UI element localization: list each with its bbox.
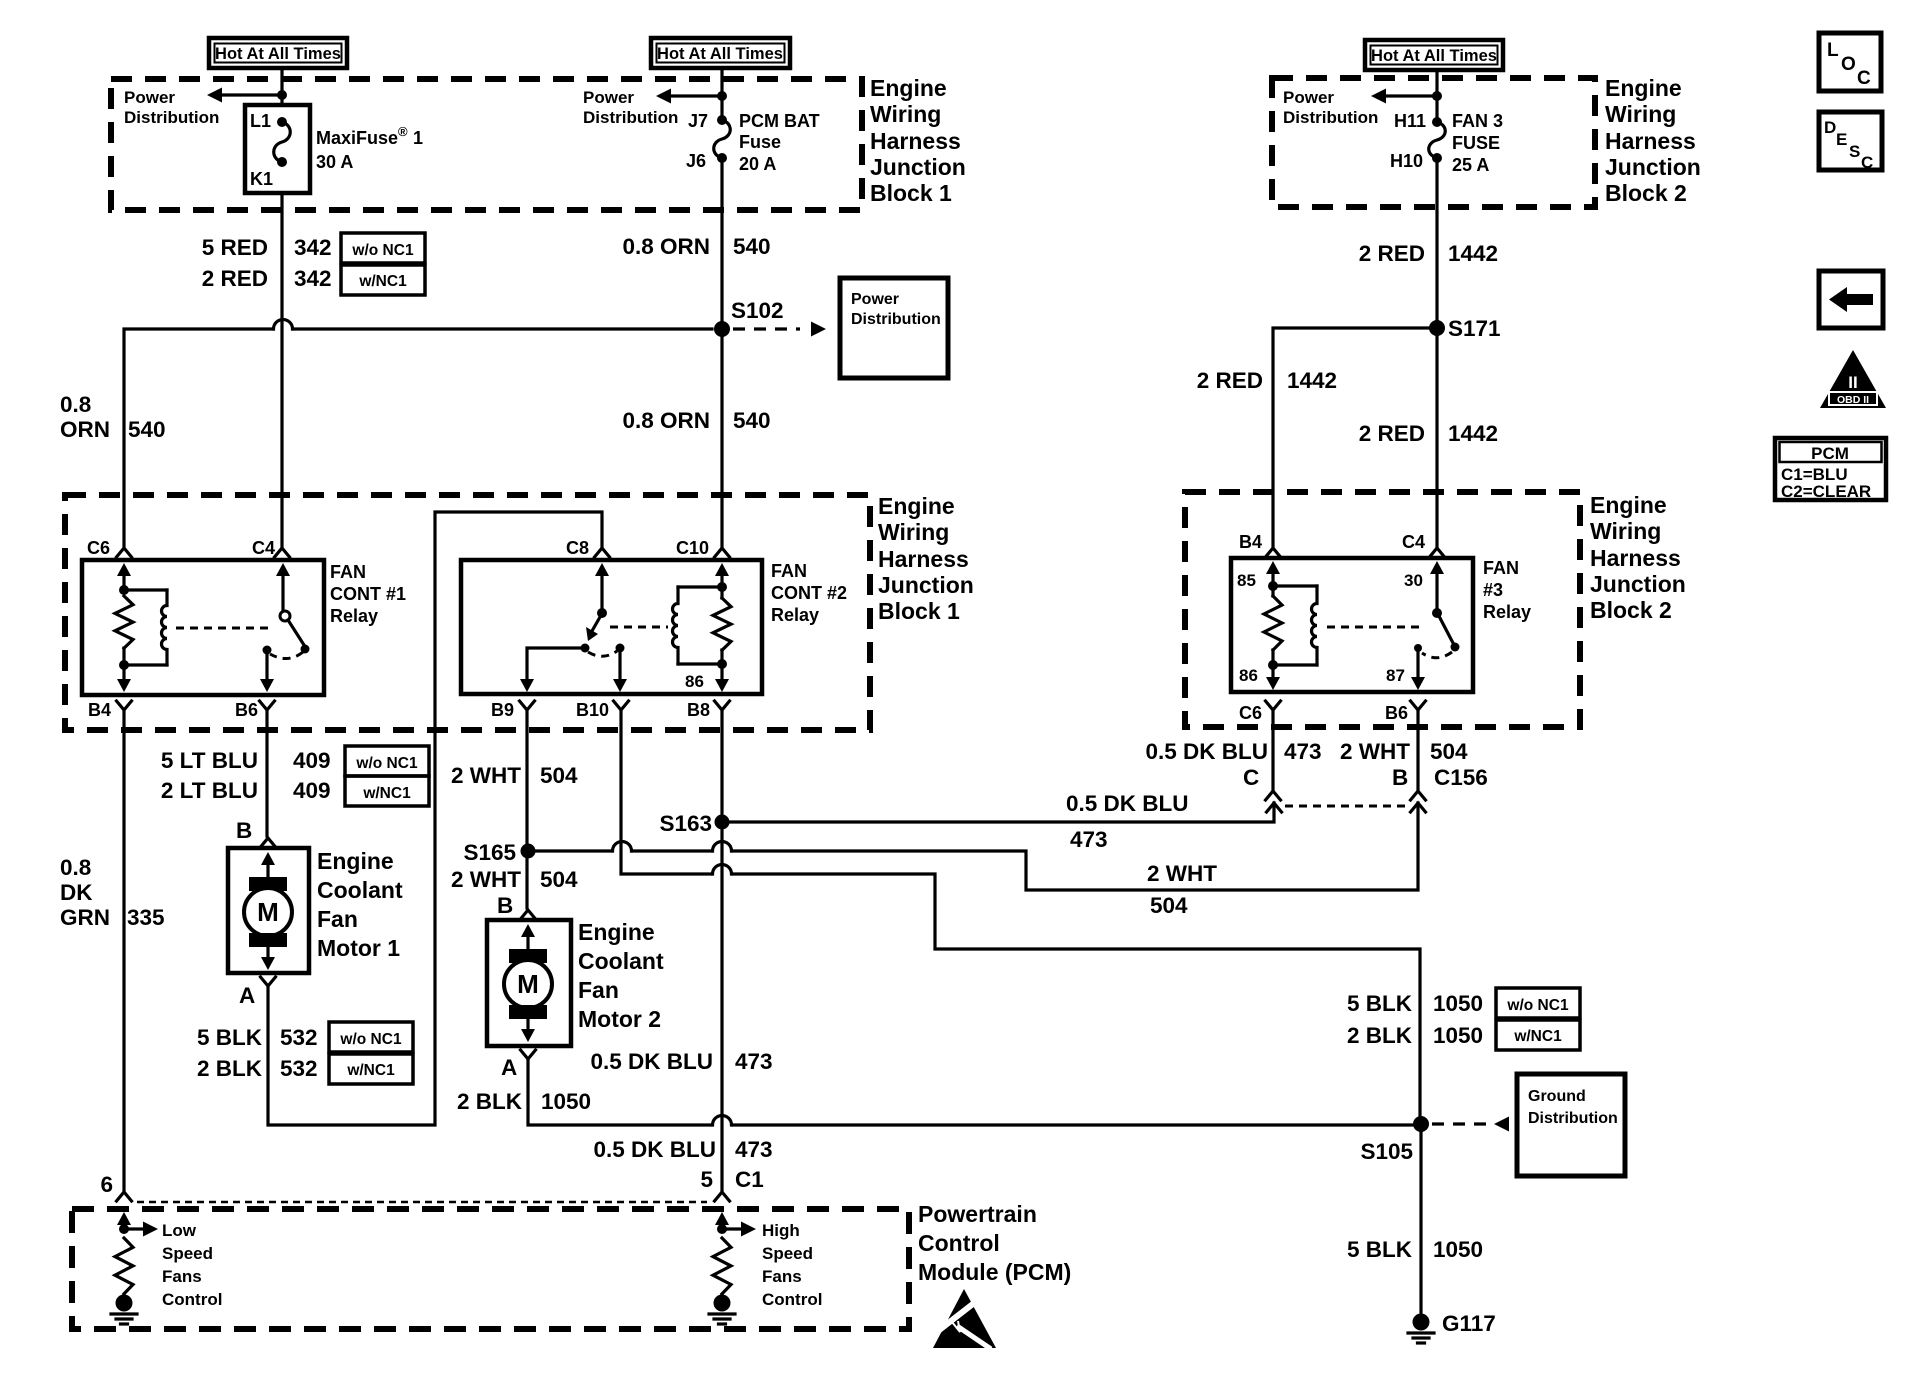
svg-text:B6: B6 [235, 700, 258, 720]
svg-text:2 RED: 2 RED [1359, 421, 1425, 446]
wire label: 2 BLK 532 (w/NC1) [197, 1054, 413, 1084]
svg-text:MaxiFuse: MaxiFuse [316, 128, 398, 148]
value label: FAN 3 FUSE 25 A [1452, 111, 1503, 175]
wire: Hot At All Times down to FAN 3 fuse H11 [1435, 70, 1438, 122]
svg-text:Hot At All Times: Hot At All Times [1371, 47, 1497, 65]
svg-text:2 WHT: 2 WHT [451, 763, 521, 788]
svg-text:2 BLK: 2 BLK [457, 1089, 523, 1114]
wire label: 2 RED 1442 (left branch) [1197, 368, 1337, 393]
svg-text:II: II [1848, 373, 1857, 392]
relay 1 switch: pivot from C4, blade, contact to B6 [260, 563, 310, 692]
svg-text:w/NC1: w/NC1 [362, 785, 411, 802]
svg-text:B8: B8 [687, 700, 710, 720]
svg-text:B9: B9 [491, 700, 514, 720]
PCM high speed fans control driver: arrow, resistor, ground [709, 1212, 756, 1324]
pin A connector fork (motor 2) [521, 1050, 536, 1059]
wire label: 0.8 ORN 540 (lower) [622, 408, 770, 433]
svg-text:C8: C8 [566, 538, 589, 558]
svg-text:0.8 ORN: 0.8 ORN [622, 408, 710, 433]
svg-text:Fan: Fan [578, 977, 619, 1003]
wire: relay 2 B10 down then right to ground wire (joins 5 BLK 1050 drop) [621, 710, 711, 874]
svg-text:C: C [1243, 765, 1259, 790]
wire: relay 1 B4 down to PCM pin 6 (0.8 DK GRN 335) [122, 710, 125, 1191]
svg-text:PCM: PCM [1811, 444, 1849, 463]
svg-text:S171: S171 [1448, 316, 1501, 341]
svg-text:w/NC1: w/NC1 [358, 273, 407, 290]
node S105 [1360, 1116, 1429, 1164]
wire: relay 3 C6 down to connector C156 pin C [1271, 710, 1274, 790]
relay K-FAN CONT #1 (box) [82, 560, 324, 695]
wire: relay 3 B6 down to connector C156 pin B [1416, 710, 1419, 790]
wire label: 2 WHT 504 (below S165) [451, 867, 578, 892]
motor M2: Engine Coolant Fan Motor 2 [487, 920, 571, 1046]
svg-text:86: 86 [685, 672, 704, 691]
svg-text:504: 504 [540, 763, 578, 788]
ESD sensitive device triangle symbol [933, 1289, 996, 1349]
wire label: 0.5 DK BLU 473 (above motor 2 ground run) [590, 1049, 772, 1074]
svg-text:w/NC1: w/NC1 [1513, 1028, 1562, 1045]
relay 2 coil branch: entry from C10, coil + resistor, exit to B8 [673, 563, 732, 692]
svg-text:G117: G117 [1442, 1311, 1496, 1336]
svg-text:Distribution: Distribution [124, 108, 219, 127]
svg-text:Junction: Junction [878, 572, 974, 598]
svg-text:473: 473 [735, 1049, 773, 1074]
svg-text:ORN: ORN [60, 417, 110, 442]
relay K-FAN CONT #2 (box) [461, 560, 762, 694]
svg-text:Engine: Engine [870, 75, 947, 101]
label: Engine Wiring Harness Junction Block 2 (top) [1605, 75, 1701, 206]
svg-text:0.5 DK BLU: 0.5 DK BLU [1066, 791, 1189, 816]
svg-text:Engine: Engine [878, 493, 955, 519]
svg-text:B6: B6 [1385, 703, 1408, 723]
label: Engine Wiring Harness Junction Block 1 (top) [870, 75, 966, 206]
svg-text:342: 342 [294, 266, 332, 291]
wire label: 0.5 DK BLU 473 (relay 3 C6) [1145, 739, 1321, 764]
svg-text:1442: 1442 [1448, 421, 1498, 446]
svg-text:86: 86 [1239, 666, 1258, 685]
svg-text:2 BLK: 2 BLK [197, 1056, 263, 1081]
relay 3 switch: pivot from 30/C4, blade, contact to 87 [1411, 561, 1460, 690]
wire label: 0.8 DK GRN 335 [60, 855, 165, 930]
node S102 [714, 298, 784, 337]
svg-text:473: 473 [735, 1137, 773, 1162]
svg-text:0.8: 0.8 [60, 855, 91, 880]
wire label: 0.5 DK BLU 473 (lower, to PCM pin 5) [593, 1137, 772, 1162]
wire: fuse H10 down through S171 to relay FAN #3 pin C4 [1435, 158, 1438, 547]
pin A connector fork (motor 1) [261, 977, 276, 986]
svg-text:Relay: Relay [771, 605, 819, 625]
svg-text:High: High [762, 1221, 800, 1240]
svg-text:Module (PCM): Module (PCM) [918, 1259, 1071, 1285]
label: FAN #3 Relay [1483, 558, 1531, 622]
svg-text:5 BLK: 5 BLK [1347, 991, 1413, 1016]
svg-text:Coolant: Coolant [578, 948, 664, 974]
sidebar icon: DESC box [1819, 112, 1882, 172]
wire label: 2 RED 342 (w/NC1) [202, 265, 425, 295]
svg-text:5: 5 [700, 1167, 713, 1192]
PCM low speed fans control driver: arrow, resistor, ground [111, 1212, 158, 1324]
fuse: PCM BAT Fuse 20 A (pins J7/J6) [686, 111, 730, 171]
svg-text:5 RED: 5 RED [202, 235, 268, 260]
svg-text:w/o NC1: w/o NC1 [1506, 997, 1569, 1014]
svg-text:DK: DK [60, 880, 93, 905]
svg-text:Distribution: Distribution [1528, 1110, 1618, 1127]
svg-text:Control: Control [162, 1290, 222, 1309]
svg-text:Engine: Engine [1605, 75, 1682, 101]
sidebar icon: OBD II triangle [1820, 350, 1886, 408]
wire: Hot At All Times down to PCM BAT fuse J7 [720, 68, 723, 120]
svg-text:1050: 1050 [541, 1089, 591, 1114]
svg-text:6: 6 [100, 1172, 113, 1197]
module: Powertrain Control Module (PCM) dashed box [72, 1209, 909, 1329]
svg-text:1050: 1050 [1433, 991, 1483, 1016]
svg-text:30 A: 30 A [316, 152, 353, 172]
pin B6 connector fork (relay 3) [1411, 701, 1426, 710]
svg-text:Wiring: Wiring [1605, 101, 1676, 127]
svg-text:540: 540 [733, 234, 771, 259]
relay 1 coil branch: entry arrow, resistor, coil [115, 563, 167, 692]
wire: Hot At All Times down to MaxiFuse L1 [280, 68, 283, 105]
svg-text:2 LT BLU: 2 LT BLU [161, 778, 258, 803]
svg-text:Block 1: Block 1 [870, 180, 952, 206]
wire label: 0.8 ORN 540 (left drop) [60, 392, 166, 442]
wire: S165 right to C156 pin B (2 WHT 504 feed to relay 3 B6) [535, 849, 612, 852]
svg-text:Hot At All Times: Hot At All Times [657, 45, 783, 63]
pin 5 / connector C1 label (PCM) [700, 1167, 763, 1192]
svg-text:C2=CLEAR: C2=CLEAR [1781, 482, 1871, 501]
dashed reference arrow: S105 to Ground Distribution [1432, 1117, 1509, 1132]
svg-text:Wiring: Wiring [870, 101, 941, 127]
wire label: 2 RED 1442 (upper) [1359, 241, 1498, 266]
wire: S105 down to ground G117 (5 BLK 1050) [1419, 1124, 1422, 1314]
svg-text:B4: B4 [1239, 532, 1262, 552]
svg-text:S165: S165 [463, 840, 516, 865]
wire label: 2 BLK 1050 (w/NC1) [1347, 1020, 1580, 1050]
sidebar icon: LOC box [1819, 33, 1881, 91]
svg-text:Junction: Junction [1590, 571, 1686, 597]
label: Power Distribution (JB1) [124, 88, 219, 127]
label: Engine Wiring Harness Junction Block 1 (middle) [878, 493, 974, 624]
junction block: Engine Wiring Harness Junction Block 1 (top, dashed) [111, 79, 862, 210]
fuse: MaxiFuse 1 30 A (pins L1/K1) [245, 105, 310, 193]
svg-text:5 LT BLU: 5 LT BLU [161, 748, 258, 773]
relay 2 switch: pivot from C8, blade arrow, contacts to B9 and B10 [520, 563, 627, 692]
power distribution take-off arrow (PCM BAT) [656, 89, 727, 104]
connector C156 pin C mating forks [1266, 791, 1281, 800]
svg-text:20 A: 20 A [739, 154, 776, 174]
svg-text:Distribution: Distribution [1283, 108, 1378, 127]
svg-text:0.5 DK BLU: 0.5 DK BLU [593, 1137, 716, 1162]
dashed reference arrow: S102 to Power Distribution [733, 322, 826, 337]
svg-text:2 RED: 2 RED [1359, 241, 1425, 266]
svg-text:PCM BAT: PCM BAT [739, 111, 820, 131]
svg-text:Power: Power [583, 88, 634, 107]
svg-text:Fuse: Fuse [739, 132, 781, 152]
svg-text:B10: B10 [576, 700, 609, 720]
svg-text:473: 473 [1070, 827, 1108, 852]
pin B10 connector fork (relay 2) [614, 701, 629, 710]
svg-text:Motor 2: Motor 2 [578, 1006, 661, 1032]
svg-text:FAN 3: FAN 3 [1452, 111, 1503, 131]
wire label: 2 LT BLU 409 (w/NC1) [161, 776, 429, 806]
svg-text:Fans: Fans [762, 1267, 802, 1286]
svg-text:J7: J7 [688, 111, 708, 131]
svg-text:#3: #3 [1483, 580, 1503, 600]
node S171 [1429, 316, 1501, 341]
svg-text:5 BLK: 5 BLK [197, 1025, 263, 1050]
fuse: FAN 3 FUSE 25 A (pins H11/H10) [1390, 111, 1445, 171]
svg-text:409: 409 [293, 778, 331, 803]
label: Engine Coolant Fan Motor 1 [317, 848, 403, 961]
svg-text:Distribution: Distribution [583, 108, 678, 127]
svg-text:87: 87 [1386, 666, 1405, 685]
svg-text:A: A [239, 983, 255, 1008]
relay 1 actuation dashed link [176, 627, 272, 630]
svg-text:D: D [1824, 118, 1836, 137]
svg-text:S: S [1849, 142, 1860, 161]
svg-text:2 WHT: 2 WHT [1147, 861, 1217, 886]
svg-text:2 WHT: 2 WHT [451, 867, 521, 892]
svg-text:B4: B4 [88, 700, 111, 720]
wire: motor 1 pin A down, right, and up to relay FAN CONT #2 pin C8 (BLK 532) [268, 512, 602, 1125]
svg-text:Block 1: Block 1 [878, 598, 960, 624]
svg-text:FUSE: FUSE [1452, 133, 1500, 153]
label: Engine Coolant Fan Motor 2 [578, 919, 664, 1032]
svg-text:GRN: GRN [60, 905, 110, 930]
svg-text:5 BLK: 5 BLK [1347, 1237, 1413, 1262]
svg-text:Junction: Junction [870, 154, 966, 180]
wire label: 5 BLK 532 (w/o NC1) [197, 1022, 413, 1052]
svg-text:540: 540 [733, 408, 771, 433]
pin B9 connector fork (relay 2) [520, 701, 535, 710]
label: Low Speed Fans Control [162, 1221, 222, 1309]
svg-text:C156: C156 [1434, 765, 1488, 790]
label: Power Distribution (FAN 3) [1283, 88, 1378, 127]
relay 2 actuation dashed link [610, 626, 668, 629]
svg-text:Harness: Harness [878, 546, 969, 572]
svg-text:Hot At All Times: Hot At All Times [215, 45, 341, 63]
wire: relay 2 B8 down through S163 to PCM pin 5 (0.5 DK BLU 473) [720, 710, 723, 1191]
wire: relay 2 B9 down through S165 to motor 2 pin B (2 WHT 504) [525, 710, 528, 908]
pin B6 connector fork (relay 1) [260, 701, 275, 710]
wire: S102 left then down to relay FAN CONT #1 pin C6 (0.8 ORN 540) [293, 327, 712, 330]
svg-text:S163: S163 [659, 811, 712, 836]
svg-text:Wiring: Wiring [1590, 518, 1661, 544]
svg-text:Speed: Speed [162, 1244, 213, 1263]
svg-text:K1: K1 [250, 169, 273, 189]
svg-text:CONT #2: CONT #2 [771, 583, 847, 603]
pin B8 connector fork (relay 2) [715, 701, 730, 710]
ground G117 [1408, 1311, 1496, 1343]
svg-text:C10: C10 [676, 538, 709, 558]
svg-text:Block 2: Block 2 [1590, 597, 1672, 623]
svg-text:Harness: Harness [870, 128, 961, 154]
svg-text:Distribution: Distribution [851, 311, 941, 328]
node S165 [463, 840, 535, 865]
svg-text:1: 1 [413, 128, 423, 148]
svg-text:Fans: Fans [162, 1267, 202, 1286]
junction block: Engine Wiring Harness Junction Block 2 (middle, dashed) [1185, 492, 1580, 727]
power distribution take-off arrow (FAN 3) [1371, 89, 1442, 104]
reference box: Power Distribution [840, 278, 948, 378]
svg-text:C: C [1861, 153, 1873, 172]
junction block: Engine Wiring Harness Junction Block 1 (middle, dashed) [65, 495, 870, 730]
svg-text:Low: Low [162, 1221, 197, 1240]
svg-text:532: 532 [280, 1056, 318, 1081]
label: Power Distribution (PCM BAT) [583, 88, 678, 127]
svg-text:L1: L1 [250, 111, 271, 131]
wire: MaxiFuse K1 down to relay FAN CONT #1 pin C4 [280, 193, 283, 547]
svg-text:2 RED: 2 RED [1197, 368, 1263, 393]
svg-text:C: C [1857, 68, 1871, 89]
svg-text:C6: C6 [87, 538, 110, 558]
svg-text:Power: Power [124, 88, 175, 107]
wire: relay 1 B6 down to Engine Coolant Fan Motor 1 pin B (LT BLU 409) [265, 710, 268, 836]
svg-text:O: O [1841, 54, 1856, 75]
wire: S163 right to C156 pin C (0.5 DK BLU 473 feed to relay 3 C6) [722, 803, 1274, 822]
wire label: 2 WHT 504 (relay 3 B6) [1340, 739, 1468, 764]
label: High Speed Fans Control [762, 1221, 822, 1309]
svg-text:FAN: FAN [330, 562, 366, 582]
sidebar legend: PCM connector colours [1775, 438, 1886, 501]
pin B4 connector fork (relay 1) [117, 701, 132, 710]
svg-text:OBD II: OBD II [1837, 394, 1869, 406]
svg-text:2 WHT: 2 WHT [1340, 739, 1410, 764]
label: Hot At All Times (FAN 3 feed) [1365, 40, 1503, 70]
svg-text:Control: Control [918, 1230, 1000, 1256]
svg-text:Fan: Fan [317, 906, 358, 932]
svg-text:L: L [1827, 40, 1839, 61]
wire label: 5 RED 342 (w/o NC1) [202, 233, 425, 263]
pin C6 connector fork (relay 3) [1266, 701, 1281, 710]
wire label: 2 BLK 1050 [457, 1089, 591, 1114]
svg-text:1050: 1050 [1433, 1023, 1483, 1048]
wire label: 5 BLK 1050 (to G117) [1347, 1237, 1483, 1262]
svg-text:0.5 DK BLU: 0.5 DK BLU [590, 1049, 713, 1074]
svg-text:540: 540 [128, 417, 166, 442]
node S163 [659, 811, 729, 836]
label: Hot At All Times (PCM BAT feed) [651, 38, 790, 68]
svg-text:1442: 1442 [1448, 241, 1498, 266]
motor M1: Engine Coolant Fan Motor 1 [228, 848, 309, 973]
wire: S171 left then down to relay FAN #3 pin B4 (2 RED 1442) [1273, 328, 1437, 547]
svg-text:85: 85 [1237, 571, 1256, 590]
svg-text:FAN: FAN [1483, 558, 1519, 578]
connector C156 pin B mating forks [1411, 791, 1426, 800]
svg-text:B: B [236, 818, 252, 843]
svg-text:M: M [517, 969, 539, 999]
svg-text:335: 335 [127, 905, 165, 930]
svg-text:w/NC1: w/NC1 [346, 1062, 395, 1079]
wire label: 2 WHT 504 (B9 upper) [451, 763, 578, 788]
label: Engine Wiring Harness Junction Block 2 (middle) [1590, 492, 1686, 623]
svg-text:Ground: Ground [1528, 1088, 1586, 1105]
label: FAN CONT #2 Relay [771, 561, 847, 625]
svg-text:504: 504 [540, 867, 578, 892]
svg-text:H10: H10 [1390, 151, 1423, 171]
svg-text:Harness: Harness [1590, 545, 1681, 571]
wire: motor 2 pin A down and right to S105 (2 BLK 1050) [528, 1059, 711, 1125]
svg-text:FAN: FAN [771, 561, 807, 581]
svg-text:E: E [1836, 130, 1847, 149]
svg-text:0.8: 0.8 [60, 392, 91, 417]
svg-text:Engine: Engine [317, 848, 394, 874]
label: Powertrain Control Module (PCM) [918, 1201, 1071, 1285]
svg-text:30: 30 [1404, 571, 1423, 590]
svg-text:2 RED: 2 RED [202, 266, 268, 291]
value label: MaxiFuse(R) 1 30 A [316, 124, 423, 172]
relay 3 actuation dashed link [1327, 626, 1424, 629]
svg-text:25 A: 25 A [1452, 155, 1489, 175]
relay 3 coil branch: entry arrow, resistor, coil [1264, 561, 1317, 690]
svg-text:Relay: Relay [330, 606, 378, 626]
wire label: 5 BLK 1050 (w/o NC1) [1347, 988, 1580, 1018]
svg-text:1050: 1050 [1433, 1237, 1483, 1262]
wire label: 0.8 ORN 540 (upper) [622, 234, 770, 259]
svg-text:Wiring: Wiring [878, 519, 949, 545]
svg-text:w/o NC1: w/o NC1 [351, 242, 414, 259]
svg-text:H11: H11 [1394, 111, 1426, 131]
svg-text:A: A [501, 1055, 517, 1080]
svg-text:0.8 ORN: 0.8 ORN [622, 234, 710, 259]
svg-text:w/o NC1: w/o NC1 [355, 755, 418, 772]
svg-text:Coolant: Coolant [317, 877, 403, 903]
svg-text:B: B [1392, 765, 1408, 790]
svg-text:Junction: Junction [1605, 154, 1701, 180]
svg-text:w/o NC1: w/o NC1 [339, 1031, 402, 1048]
svg-text:Control: Control [762, 1290, 822, 1309]
svg-text:504: 504 [1430, 739, 1468, 764]
svg-text:C6: C6 [1239, 703, 1262, 723]
svg-text:C4: C4 [1402, 532, 1425, 552]
svg-text:Relay: Relay [1483, 602, 1531, 622]
svg-text:1442: 1442 [1287, 368, 1337, 393]
svg-text:504: 504 [1150, 893, 1188, 918]
svg-text:532: 532 [280, 1025, 318, 1050]
svg-text:Block 2: Block 2 [1605, 180, 1687, 206]
svg-text:C4: C4 [252, 538, 275, 558]
svg-text:B: B [497, 893, 513, 918]
svg-text:J6: J6 [686, 151, 706, 171]
svg-text:Power: Power [851, 291, 899, 308]
power distribution take-off arrow (JB1 left) [207, 88, 287, 103]
svg-text:Power: Power [1283, 88, 1334, 107]
svg-text:Powertrain: Powertrain [918, 1201, 1037, 1227]
svg-text:C1: C1 [735, 1167, 764, 1192]
label: Hot At All Times (MaxiFuse feed) [209, 38, 347, 68]
wire label: 2 RED 1442 (lower) [1359, 421, 1498, 446]
svg-text:2 BLK: 2 BLK [1347, 1023, 1413, 1048]
svg-text:S102: S102 [731, 298, 784, 323]
svg-text:409: 409 [293, 748, 331, 773]
svg-text:®: ® [398, 124, 408, 139]
sidebar icon: back-arrow box [1819, 271, 1883, 328]
junction block: Engine Wiring Harness Junction Block 2 (top, dashed) [1272, 78, 1595, 207]
svg-text:M: M [257, 897, 279, 927]
connector C156 dashed tie line [1285, 805, 1406, 808]
svg-text:0.5 DK BLU: 0.5 DK BLU [1145, 739, 1268, 764]
svg-text:Harness: Harness [1605, 128, 1696, 154]
svg-text:CONT #1: CONT #1 [330, 584, 406, 604]
svg-text:342: 342 [294, 235, 332, 260]
svg-text:Engine: Engine [1590, 492, 1667, 518]
svg-text:473: 473 [1284, 739, 1322, 764]
svg-text:S105: S105 [1360, 1139, 1413, 1164]
wire label: 5 LT BLU 409 (w/o NC1) [161, 746, 429, 776]
reference box: Ground Distribution [1517, 1074, 1625, 1176]
connector C1 dashed interface line (PCM top) [137, 1201, 707, 1204]
svg-text:Engine: Engine [578, 919, 655, 945]
